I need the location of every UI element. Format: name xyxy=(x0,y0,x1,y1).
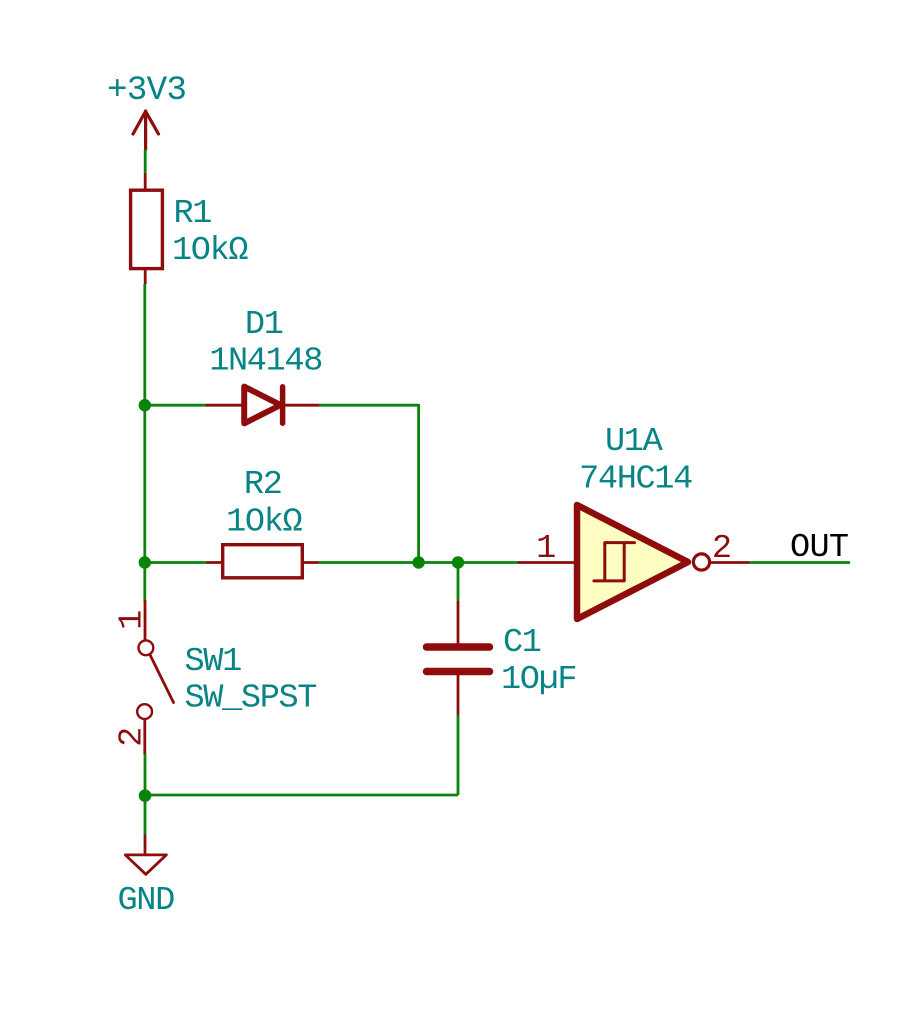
op-amp U1A inverter xyxy=(519,505,750,619)
svg-text:OUT: OUT xyxy=(790,529,848,567)
wire C1 to bottom row xyxy=(457,715,460,795)
svg-text:SW1: SW1 xyxy=(185,643,242,681)
svg-text:1: 1 xyxy=(114,611,152,630)
wire to diode anode xyxy=(145,404,207,407)
svg-text:1OkΩ: 1OkΩ xyxy=(226,503,302,541)
svg-text:+3V3: +3V3 xyxy=(107,71,186,110)
capacitor C1 xyxy=(427,602,490,715)
node junction at diode row xyxy=(139,399,151,411)
wire R2 to U1 input xyxy=(319,561,519,564)
svg-text:GND: GND xyxy=(117,882,174,920)
node junction bottom xyxy=(139,789,152,802)
wire down to C1 xyxy=(457,563,460,603)
node junction left main row xyxy=(139,556,151,568)
svg-text:1N4148: 1N4148 xyxy=(209,342,322,380)
svg-text:R2: R2 xyxy=(244,466,282,504)
svg-text:1OkΩ: 1OkΩ xyxy=(172,232,248,270)
svg-text:D1: D1 xyxy=(245,306,283,344)
svg-text:74HC14: 74HC14 xyxy=(579,460,692,498)
diode D1 xyxy=(207,387,319,424)
wire diode cathode to corner xyxy=(319,404,419,407)
svg-text:1OµF: 1OµF xyxy=(501,661,576,699)
node junction capacitor tap xyxy=(452,556,464,568)
wire power to R1 xyxy=(144,149,147,173)
switch SW1 xyxy=(137,601,173,754)
resistor R2 xyxy=(206,545,319,578)
svg-text:1: 1 xyxy=(536,530,555,568)
node junction diode loop on main row xyxy=(412,556,424,568)
svg-text:C1: C1 xyxy=(503,624,541,662)
wire bottom row xyxy=(145,794,458,797)
svg-text:2: 2 xyxy=(712,530,731,568)
resistor R1 xyxy=(131,173,163,284)
svg-text:2: 2 xyxy=(114,728,152,747)
wire SW1 to bottom junction xyxy=(144,754,147,836)
wire to R2 xyxy=(145,561,206,564)
svg-text:U1A: U1A xyxy=(605,423,664,461)
ground GND xyxy=(125,836,166,874)
svg-text:R1: R1 xyxy=(174,195,212,233)
wire corner down to main row xyxy=(417,404,420,563)
power symbol +3V3 xyxy=(133,111,159,149)
wire U1A output to OUT xyxy=(749,561,850,564)
svg-text:SW_SPST: SW_SPST xyxy=(185,680,317,718)
wire R1 to junction column xyxy=(143,284,146,601)
